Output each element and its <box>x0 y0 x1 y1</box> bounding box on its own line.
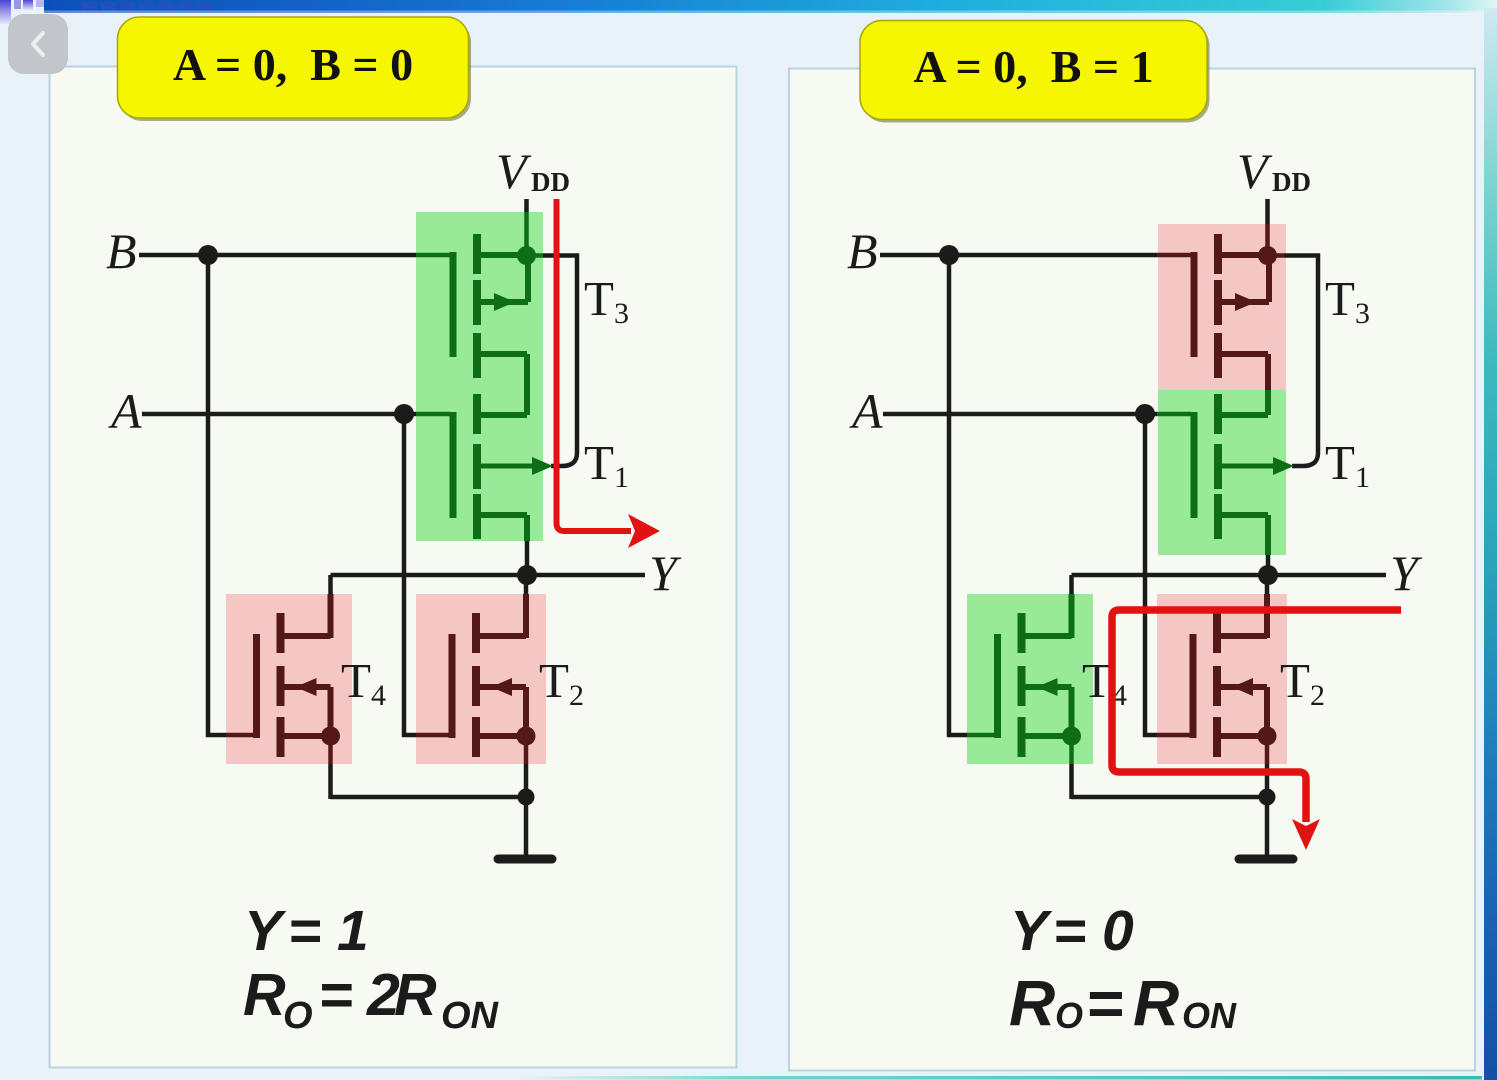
wire: input A rail to gate of T1 <box>883 412 1157 417</box>
svg-text:A: A <box>108 383 142 439</box>
wire: B vertical down to T4 gate <box>947 255 952 737</box>
highlight: T4 conducting (green) <box>967 594 1093 764</box>
left panel <box>50 67 737 1068</box>
svg-text:1: 1 <box>337 899 369 963</box>
node: ground junction <box>1259 789 1276 806</box>
wire: output Y rail <box>1072 573 1387 578</box>
highlight: T1 conducting (green) <box>1158 390 1286 555</box>
svg-text:ON: ON <box>441 995 500 1037</box>
transistor T4 (NMOS, gate B) <box>998 613 1082 757</box>
svg-text:Y: Y <box>244 899 287 963</box>
svg-text:DD: DD <box>531 167 570 197</box>
wire: T4 gate foot <box>206 733 226 738</box>
highlight: T2 off (pink) <box>416 594 546 764</box>
svg-text:R: R <box>243 962 286 1028</box>
transistor T1 (PMOS, gate A) <box>1194 394 1294 539</box>
svg-text:R: R <box>1133 967 1179 1039</box>
result text: Ro = 2Ron <box>243 962 500 1037</box>
transistor T4 (NMOS, gate B) <box>257 613 341 757</box>
wire: T3 drain to T1 source <box>524 354 530 415</box>
wire: T2 drain up to Y node <box>1265 575 1270 594</box>
node: ground junction <box>518 789 535 806</box>
svg-text:0: 0 <box>1102 899 1134 963</box>
wire: VDD supply lead <box>1265 199 1270 224</box>
wire: T4 drain up to Y rail <box>1069 575 1074 594</box>
svg-text:Y: Y <box>1010 899 1053 963</box>
node: B junction <box>198 245 218 265</box>
wire: T2 gate foot <box>1143 733 1157 738</box>
red current path arrow: Y through T4 to ground <box>1112 610 1401 850</box>
svg-text:A = 0, B = 1: A = 0, B = 1 <box>913 41 1153 92</box>
svg-text:O: O <box>1055 995 1083 1036</box>
svg-text:ON: ON <box>1182 995 1237 1036</box>
top title bar <box>44 0 1497 13</box>
node: VDD / T3 source junction <box>1258 246 1277 265</box>
bottom teal line <box>520 1076 1482 1080</box>
wire: body tie from VDD node to T1 body (bracket) <box>527 253 544 258</box>
transistor T3 (PMOS, gate B) <box>1194 234 1269 378</box>
wire: input B rail to gate of T3 <box>880 253 1157 258</box>
node: A junction <box>394 404 414 424</box>
wire: T2 source down to ground junction <box>1265 736 1270 764</box>
wire: body tie from VDD node to T1 body (bracket) <box>1268 253 1285 258</box>
transistor T3 (PMOS, gate B) <box>453 234 528 378</box>
red current path arrow: VDD through T3,T1 to Y <box>557 199 661 548</box>
wire: T4 source down <box>328 736 333 764</box>
node: Y junction <box>517 565 537 585</box>
ground <box>524 797 529 856</box>
wire: T1 drain down to Y node <box>1265 515 1271 555</box>
wire: T2 drain up to Y node <box>524 575 529 594</box>
title bar text blobs <box>82 2 97 10</box>
wire: A vertical down to T2 gate <box>402 414 407 737</box>
wire: input B rail to gate of T3 <box>139 253 416 258</box>
ground <box>1265 797 1270 856</box>
node: VDD / T3 source junction <box>517 246 536 265</box>
result text: Y = 1 <box>244 899 369 963</box>
yellow title box: A=0, B=0 <box>118 17 472 121</box>
svg-text:A = 0, B = 0: A = 0, B = 0 <box>173 39 413 90</box>
back button <box>8 14 68 74</box>
transistor T1 (PMOS, gate A) <box>453 394 553 539</box>
logo marks top-left <box>0 0 11 24</box>
highlight: T2 off (pink) <box>1157 594 1287 764</box>
highlight: T3+T1 conducting (green) <box>416 212 543 541</box>
wire: B vertical down to T4 gate <box>206 255 211 737</box>
highlight: T3 off (pink) <box>1158 224 1286 390</box>
yellow title box: A=0, B=1 <box>860 21 1210 123</box>
svg-text:DD: DD <box>1272 167 1311 197</box>
svg-text:=: = <box>1086 967 1123 1039</box>
node: A junction <box>1135 404 1155 424</box>
svg-text:B: B <box>847 223 878 279</box>
transistor T2 (NMOS, gate A) <box>1193 613 1277 757</box>
svg-text:=: = <box>288 899 321 963</box>
wire: T2 gate foot <box>402 733 416 738</box>
wire: T3 drain to T1 source <box>1265 354 1271 390</box>
transistor T2 (NMOS, gate A) <box>452 613 536 757</box>
highlight: T4 off (pink) <box>226 594 352 764</box>
right panel <box>789 69 1475 1071</box>
wire: T4 source down <box>1069 736 1074 764</box>
wire: T4 gate foot <box>947 733 967 738</box>
svg-text:A: A <box>849 383 883 439</box>
wire: output Y rail <box>331 573 646 578</box>
result text: Ro = Ron <box>1009 967 1237 1039</box>
wire: bottom rail to ground junction <box>331 795 527 800</box>
wire: VDD supply lead <box>524 199 529 212</box>
svg-text:=: = <box>1053 899 1086 963</box>
right edge gradient strip <box>1484 8 1497 1080</box>
svg-text:R: R <box>1009 967 1055 1039</box>
svg-text:R: R <box>394 962 437 1028</box>
wire: T2 source down to ground junction <box>524 736 529 764</box>
wire: T1 drain down to Y node <box>524 515 530 541</box>
wire: A vertical down to T2 gate <box>1143 414 1148 737</box>
svg-text:=: = <box>319 962 353 1028</box>
wire: bottom rail to ground junction <box>1072 795 1268 800</box>
wire: input A rail to gate of T1 <box>142 412 416 417</box>
result text: Y = 0 <box>1010 899 1134 963</box>
node: B junction <box>939 245 959 265</box>
node: Y junction <box>1258 565 1278 585</box>
svg-text:O: O <box>283 995 313 1037</box>
wire: T4 drain up to Y rail <box>328 575 333 594</box>
svg-text:B: B <box>106 223 137 279</box>
